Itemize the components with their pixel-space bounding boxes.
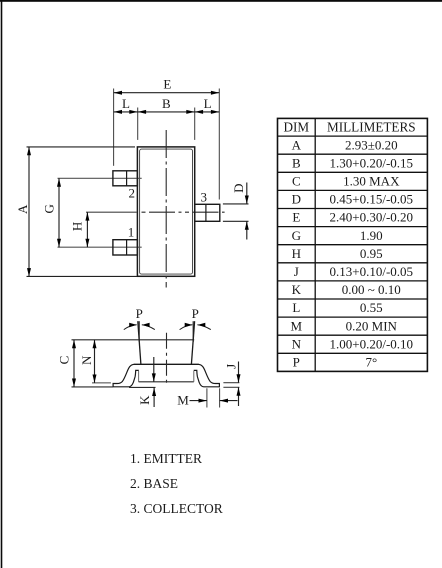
svg-text:0.13+0.10/-0.05: 0.13+0.10/-0.05 bbox=[330, 264, 414, 279]
body lower pedestal bbox=[139, 371, 194, 382]
seating plane line bbox=[72, 386, 113, 388]
svg-text:K: K bbox=[292, 282, 302, 297]
svg-text:J: J bbox=[224, 364, 239, 369]
svg-text:P: P bbox=[136, 306, 143, 321]
svg-text:1. EMITTER: 1. EMITTER bbox=[130, 451, 202, 466]
svg-text:G: G bbox=[41, 204, 56, 213]
svg-text:0.20 MIN: 0.20 MIN bbox=[346, 318, 398, 333]
svg-text:MILLIMETERS: MILLIMETERS bbox=[327, 120, 416, 135]
body left slant edge bbox=[138, 321, 141, 364]
svg-text:0.45+0.15/-0.05: 0.45+0.15/-0.05 bbox=[330, 192, 414, 207]
dimension K bbox=[137, 357, 156, 407]
body top line bbox=[72, 339, 195, 341]
side view centerline bbox=[166, 333, 168, 386]
right gull-wing lead bbox=[194, 364, 220, 387]
P angle arcs left bbox=[124, 325, 155, 330]
svg-text:A: A bbox=[292, 137, 302, 152]
table grid lines bbox=[278, 118, 428, 371]
svg-text:L: L bbox=[204, 96, 212, 111]
dimension C bbox=[56, 340, 76, 387]
dimension A bbox=[15, 147, 137, 277]
svg-text:2.93±0.20: 2.93±0.20 bbox=[345, 137, 398, 152]
svg-text:M: M bbox=[291, 318, 303, 333]
svg-text:3. COLLECTOR: 3. COLLECTOR bbox=[130, 501, 223, 516]
P angle arcs right bbox=[180, 325, 211, 330]
svg-text:1.00+0.20/-0.10: 1.00+0.20/-0.10 bbox=[330, 336, 414, 351]
svg-text:H: H bbox=[69, 222, 84, 231]
svg-text:3: 3 bbox=[200, 190, 207, 205]
svg-text:0.55: 0.55 bbox=[360, 300, 383, 315]
vertical centerline bbox=[165, 130, 167, 288]
pin 2 bbox=[113, 171, 137, 186]
svg-text:2.40+0.30/-0.20: 2.40+0.30/-0.20 bbox=[330, 210, 414, 225]
dimension E bbox=[114, 77, 220, 200]
dimension D bbox=[223, 183, 249, 240]
svg-text:K: K bbox=[137, 395, 152, 405]
svg-text:N: N bbox=[79, 355, 94, 365]
svg-text:0.95: 0.95 bbox=[360, 246, 383, 261]
package body outline (top view) bbox=[137, 147, 194, 276]
svg-text:G: G bbox=[292, 228, 301, 243]
svg-text:1.90: 1.90 bbox=[360, 228, 383, 243]
svg-text:0.00 ~ 0.10: 0.00 ~ 0.10 bbox=[342, 282, 401, 297]
svg-text:L: L bbox=[292, 300, 300, 315]
page frame top edge bbox=[0, 0, 442, 2]
svg-text:A: A bbox=[15, 204, 30, 214]
table outer border bbox=[278, 118, 428, 371]
seating plane segment under K bbox=[129, 386, 156, 388]
pin 1 bbox=[113, 240, 137, 255]
svg-text:1.30 MAX: 1.30 MAX bbox=[343, 174, 400, 189]
svg-text:M: M bbox=[177, 393, 189, 408]
horizontal centerline bbox=[86, 211, 137, 213]
svg-text:H: H bbox=[292, 246, 301, 261]
pin function list text bbox=[130, 451, 223, 516]
svg-text:C: C bbox=[56, 356, 71, 365]
svg-text:J: J bbox=[294, 264, 299, 279]
pin 2 centerline bbox=[58, 177, 142, 179]
body bottom line (lead shelf) bbox=[134, 363, 199, 365]
svg-text:1.30+0.20/-0.15: 1.30+0.20/-0.15 bbox=[330, 155, 414, 170]
pin 3 bbox=[195, 204, 220, 221]
table header: DIM / MILLIMETERS bbox=[283, 120, 415, 135]
svg-text:D: D bbox=[292, 192, 301, 207]
svg-text:7°: 7° bbox=[365, 355, 377, 370]
dimension N bbox=[79, 340, 97, 383]
dimension H bbox=[69, 212, 89, 247]
svg-text:P: P bbox=[293, 355, 300, 370]
dimension M bbox=[177, 388, 237, 407]
dimension J bbox=[223, 362, 240, 407]
dimension line L B L bbox=[114, 96, 220, 140]
svg-text:2: 2 bbox=[129, 186, 136, 201]
svg-text:B: B bbox=[292, 155, 301, 170]
svg-text:2. BASE: 2. BASE bbox=[130, 476, 178, 491]
table data rows A..P bbox=[291, 137, 414, 369]
page frame left edge bbox=[1, 0, 3, 568]
P reference vertical left bbox=[138, 321, 140, 342]
svg-text:D: D bbox=[231, 184, 246, 193]
svg-text:DIM: DIM bbox=[283, 120, 309, 135]
svg-text:B: B bbox=[162, 96, 171, 111]
svg-text:1: 1 bbox=[128, 225, 135, 240]
pin 1 centerline bbox=[58, 246, 142, 248]
N bottom extension bbox=[92, 382, 111, 384]
svg-text:L: L bbox=[122, 96, 130, 111]
dimension G bbox=[41, 178, 61, 247]
svg-text:C: C bbox=[292, 174, 301, 189]
body right slant edge bbox=[191, 321, 194, 364]
left gull-wing lead bbox=[113, 364, 139, 387]
P reference vertical right bbox=[192, 321, 194, 342]
svg-text:E: E bbox=[292, 210, 300, 225]
svg-text:P: P bbox=[192, 306, 199, 321]
svg-text:E: E bbox=[163, 77, 171, 92]
svg-text:N: N bbox=[292, 336, 302, 351]
